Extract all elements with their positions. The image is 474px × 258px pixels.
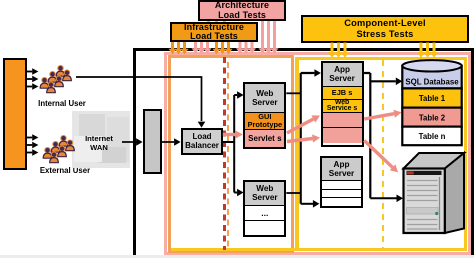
component-level stress tests box xyxy=(301,15,469,43)
orange infrastructure frame bottom xyxy=(168,250,295,253)
wire firewall bar to load balancer xyxy=(161,138,181,146)
system boundary black right line xyxy=(471,48,474,256)
pink architecture frame top xyxy=(164,52,471,55)
database SQL stack xyxy=(402,60,461,145)
svg-text:Table 2: Table 2 xyxy=(419,113,446,122)
firewall gray bar xyxy=(143,109,162,174)
server hardware tower xyxy=(404,153,465,233)
pink architecture frame right xyxy=(468,53,471,256)
svg-text:Table 1: Table 1 xyxy=(419,94,446,103)
orange dashed divider xyxy=(227,62,230,250)
pink arrow servlets to app pink band 2 xyxy=(287,134,320,142)
wire WAN to firewall bar xyxy=(122,138,143,146)
yellow component frame left xyxy=(295,57,299,251)
architecture test arrows (pink, into pink frame) xyxy=(192,21,279,54)
wire app server 1 to db bus xyxy=(364,73,403,198)
orange infrastructure frame left xyxy=(168,55,171,252)
external user cluster icon xyxy=(43,136,74,163)
pink arrow servlets to app pink band 1 xyxy=(287,115,320,133)
architecture load tests box xyxy=(198,0,286,21)
yellow component frame top xyxy=(295,57,467,60)
yellow component frame bottom (extends left) xyxy=(171,248,467,251)
svg-text:SQL Database: SQL Database xyxy=(405,77,459,86)
users orange bar xyxy=(3,58,28,170)
bus to app servers xyxy=(301,69,321,207)
pink architecture frame bottom xyxy=(164,252,471,255)
pink arrow app to table 2 xyxy=(364,110,401,119)
app server 1 box xyxy=(321,61,364,147)
orange infrastructure frame top xyxy=(168,55,295,58)
infrastructure test arrows (orange, into orange frame) xyxy=(169,42,233,54)
wire bus to server hardware xyxy=(370,195,403,203)
internal user label xyxy=(30,99,94,108)
web server 2 box xyxy=(243,180,286,238)
internet WAN cloud xyxy=(72,111,130,168)
internal user cluster icon xyxy=(40,66,71,93)
orange infrastructure frame right xyxy=(291,55,294,252)
load balancer xyxy=(181,128,223,155)
system boundary black top line xyxy=(133,48,474,52)
component stress test arrows (yellow, into yellow frame) xyxy=(328,43,438,58)
app server 2 box xyxy=(320,156,363,208)
infrastructure load tests box xyxy=(170,22,258,42)
pink arrow app to server hardware xyxy=(364,141,398,173)
wire web server 2 to app bus xyxy=(286,192,300,194)
svg-text:Table n: Table n xyxy=(419,132,446,141)
pink arrow load balancer to servlets xyxy=(223,130,243,138)
wire internal user to load balancer xyxy=(76,77,205,128)
external user label xyxy=(33,166,97,175)
system boundary black left line xyxy=(133,48,136,256)
pink stubs between test boxes xyxy=(207,21,210,23)
arrows internal users xyxy=(27,68,38,90)
pink architecture frame left xyxy=(164,53,167,256)
wire web server 1 to app bus xyxy=(286,92,300,94)
web server 1 box xyxy=(243,82,286,149)
arrows external users xyxy=(27,134,38,156)
yellow dashed divider xyxy=(382,60,385,248)
wire load balancer to web servers xyxy=(223,91,244,196)
yellow component frame right xyxy=(464,57,467,251)
internet WAN label xyxy=(73,133,125,153)
red dashed divider xyxy=(223,57,226,250)
bottom gray strip xyxy=(0,255,474,258)
